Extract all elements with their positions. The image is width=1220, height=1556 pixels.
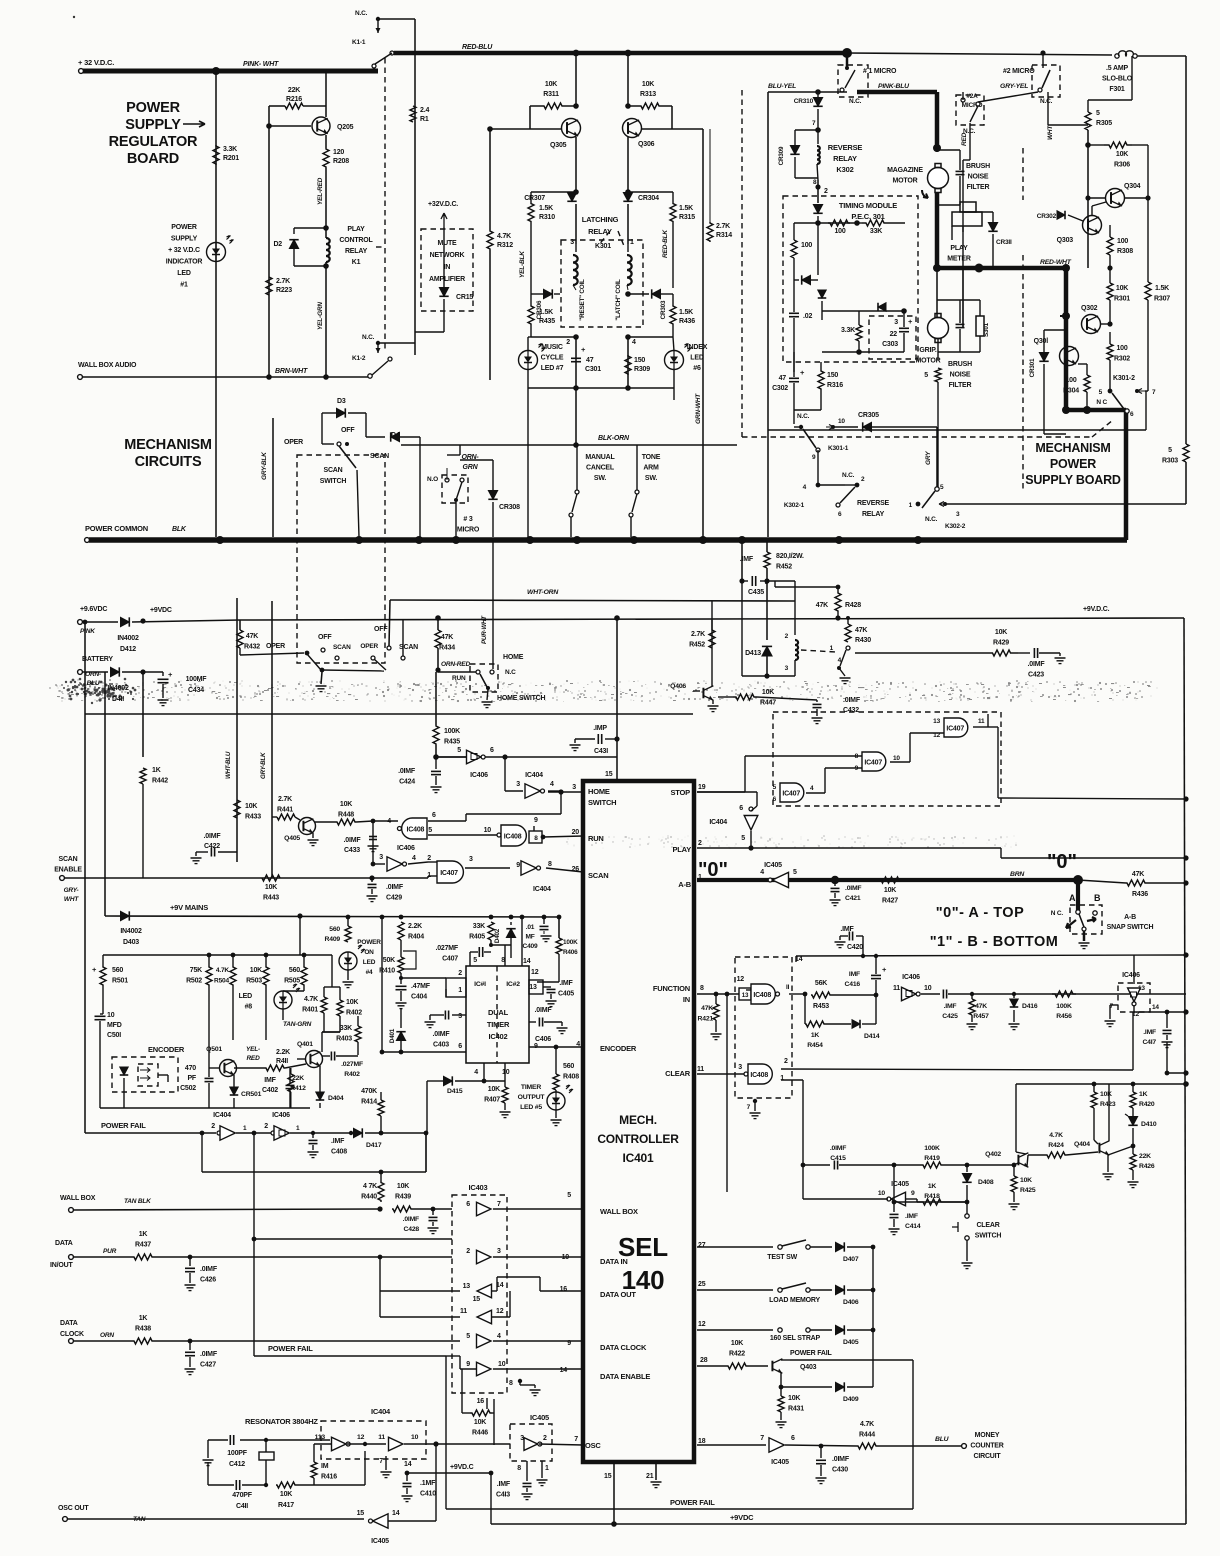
svg-text:R201: R201 <box>223 155 239 162</box>
resistor R435 1.5K <box>530 294 532 305</box>
wire clear vertical 728 <box>726 994 728 1192</box>
svg-text:1K: 1K <box>139 1315 148 1322</box>
wire diode bus vertical <box>872 1247 874 1387</box>
svg-text:5: 5 <box>765 579 769 586</box>
svg-text:C43I: C43I <box>594 748 608 755</box>
resistor R304 100 <box>1078 363 1087 365</box>
svg-text:WHT: WHT <box>1047 125 1054 140</box>
svg-text:4: 4 <box>838 657 842 664</box>
capacitor C425 .1MF <box>942 990 944 999</box>
ic402 pin stubs <box>469 959 471 966</box>
svg-text:SW.: SW. <box>594 475 606 482</box>
wire +9vdc bottom <box>491 1523 1186 1525</box>
svg-text:C4I3: C4I3 <box>496 1492 510 1499</box>
svg-text:5: 5 <box>457 747 461 754</box>
svg-text:6: 6 <box>838 511 842 518</box>
svg-text:C435: C435 <box>748 589 764 596</box>
svg-text:R311: R311 <box>543 91 559 98</box>
svg-text:10K: 10K <box>731 1340 743 1347</box>
svg-text:C434: C434 <box>188 687 204 694</box>
diode CR304 <box>623 193 632 202</box>
svg-text:IC407: IC407 <box>946 725 964 732</box>
svg-text:4.7K: 4.7K <box>304 996 318 1003</box>
svg-text:1: 1 <box>458 987 462 994</box>
svg-text:3: 3 <box>572 784 576 791</box>
resistor R311 10K <box>529 106 531 117</box>
svg-text:"0": "0" <box>1047 851 1077 873</box>
power common bus BLK <box>85 538 90 543</box>
svg-text:R420: R420 <box>1139 1101 1155 1108</box>
svg-text:PINK-BLU: PINK-BLU <box>878 83 910 90</box>
svg-text:ENCODER: ENCODER <box>600 1044 637 1053</box>
resistor R452b 2.7K <box>711 601 713 630</box>
svg-text:IN/OUT: IN/OUT <box>50 1262 73 1269</box>
svg-text:CR303: CR303 <box>660 300 667 319</box>
svg-text:13: 13 <box>742 992 749 999</box>
svg-text:REVERSE: REVERSE <box>828 143 863 152</box>
IC402 box <box>466 966 529 1063</box>
svg-text:S301: S301 <box>983 322 990 337</box>
resistor R428 47K <box>775 586 838 588</box>
svg-text:3: 3 <box>570 239 574 246</box>
svg-text:10K: 10K <box>488 1086 500 1093</box>
wire power fail bottom <box>446 1508 913 1510</box>
wire pf vertical 254 <box>253 1133 255 1356</box>
svg-text:.47MF: .47MF <box>411 983 431 990</box>
svg-text:4: 4 <box>474 1069 478 1076</box>
svg-text:MUSIC: MUSIC <box>541 344 563 351</box>
svg-text:CIRCUITS: CIRCUITS <box>135 454 202 470</box>
svg-text:3.3K: 3.3K <box>841 327 855 334</box>
capacitor C432 .01MF <box>816 700 818 702</box>
svg-text:SCAN: SCAN <box>323 467 342 474</box>
resistor R440 47K <box>378 1181 384 1202</box>
svg-text:560: 560 <box>329 926 340 933</box>
svg-text:47K: 47K <box>816 602 828 609</box>
capacitor .027MF R402 <box>330 1052 332 1061</box>
svg-text:N.C.: N.C. <box>849 98 862 105</box>
wire osc line to pin7 <box>436 1443 510 1445</box>
thick A-B bus <box>697 878 1078 882</box>
svg-text:1: 1 <box>630 239 634 246</box>
svg-text:10K: 10K <box>642 81 654 88</box>
svg-text:R313: R313 <box>640 91 656 98</box>
svg-text:MECH.: MECH. <box>619 1113 657 1127</box>
svg-text:C425: C425 <box>942 1013 958 1020</box>
resistor R316 150 <box>820 362 822 370</box>
svg-text:WHT-ORN: WHT-ORN <box>527 589 559 596</box>
svg-text:6: 6 <box>739 805 743 812</box>
resistor R448 10K <box>315 821 336 823</box>
resistor R410 50K <box>398 957 404 973</box>
resistor R433 10K <box>234 800 240 818</box>
resistor R430 47K <box>847 618 849 624</box>
svg-text:MFD: MFD <box>107 1022 122 1029</box>
svg-text:REGULATOR: REGULATOR <box>109 134 198 150</box>
svg-text:15: 15 <box>604 1473 612 1480</box>
svg-text:D405: D405 <box>843 1339 859 1346</box>
svg-text:14: 14 <box>1152 1004 1159 1011</box>
svg-text:.IMF: .IMF <box>1143 1029 1156 1036</box>
svg-text:R504: R504 <box>214 978 229 985</box>
capacitor C430 .01MF <box>820 1446 822 1458</box>
diode D413 <box>762 646 772 656</box>
capacitor C410 .1MF <box>406 1473 408 1481</box>
svg-text:C302: C302 <box>772 385 788 392</box>
svg-text:.0IMF: .0IMF <box>403 1216 419 1223</box>
timing module dashed box <box>783 196 918 362</box>
svg-text:FILTER: FILTER <box>949 382 972 389</box>
svg-text:Q306: Q306 <box>638 141 655 148</box>
svg-text:CANCEL: CANCEL <box>586 465 615 472</box>
wire +32V vertical to power common <box>215 73 217 537</box>
svg-text:100: 100 <box>1065 377 1076 384</box>
svg-text:C432: C432 <box>843 707 859 714</box>
svg-text:BLU-YEL: BLU-YEL <box>768 83 796 90</box>
svg-text:IC405: IC405 <box>530 1413 549 1422</box>
svg-text:CLOCK: CLOCK <box>60 1331 84 1338</box>
svg-text:ENABLE: ENABLE <box>54 867 82 874</box>
svg-text:2.4: 2.4 <box>420 107 429 114</box>
svg-text:100: 100 <box>1117 238 1128 245</box>
svg-text:47K: 47K <box>1132 871 1144 878</box>
svg-text:OPER: OPER <box>360 643 378 650</box>
resistor R301 10K <box>1107 265 1112 270</box>
wire q401 mains links <box>324 986 340 988</box>
svg-text:6: 6 <box>773 796 777 803</box>
resistor 3.3K pec <box>856 325 862 341</box>
svg-text:R442: R442 <box>152 778 168 785</box>
svg-text:7: 7 <box>760 1435 764 1442</box>
dashed relay K1 linkage <box>384 58 386 352</box>
wire battery verticals <box>104 672 106 916</box>
svg-text:FILTER: FILTER <box>967 184 990 191</box>
svg-text:CONTROL: CONTROL <box>339 237 373 244</box>
svg-text:14: 14 <box>795 956 803 963</box>
transistor Q306 <box>627 53 629 106</box>
diode D405 <box>810 1329 832 1331</box>
svg-text:D415: D415 <box>447 1088 463 1095</box>
svg-text:HOME SWITCH: HOME SWITCH <box>497 695 545 702</box>
svg-text:POWER FAIL: POWER FAIL <box>268 1344 313 1353</box>
svg-text:1K: 1K <box>928 1183 937 1190</box>
svg-text:R416: R416 <box>321 1474 337 1481</box>
svg-text:33K: 33K <box>473 923 485 930</box>
svg-text:4.7K: 4.7K <box>1049 1132 1063 1139</box>
svg-text:IC404: IC404 <box>709 819 727 826</box>
svg-text:K1-2: K1-2 <box>352 355 366 362</box>
svg-text:"0"- A - TOP: "0"- A - TOP <box>936 905 1025 921</box>
resistor R409 560 <box>347 917 349 926</box>
resistor R435 100K <box>435 672 437 725</box>
svg-text:C416: C416 <box>845 981 861 988</box>
svg-text:D4II: D4II <box>112 696 124 703</box>
svg-text:10K: 10K <box>340 801 352 808</box>
svg-text:22: 22 <box>890 331 898 338</box>
wire thin loop right <box>768 429 1146 431</box>
svg-text:N.C.: N.C. <box>797 413 810 420</box>
wire ic402 bottom pins <box>483 1063 485 1081</box>
svg-text:.0IMF: .0IMF <box>1028 661 1046 668</box>
svg-text:LED #5: LED #5 <box>520 1104 542 1111</box>
svg-text:10K: 10K <box>474 1419 486 1426</box>
svg-text:+32V.D.C.: +32V.D.C. <box>428 201 458 208</box>
svg-text:C409: C409 <box>523 943 538 950</box>
svg-text:15: 15 <box>605 771 613 778</box>
wire data out branches <box>379 1257 381 1291</box>
svg-text:BLK: BLK <box>172 526 187 533</box>
svg-text:C427: C427 <box>200 1362 216 1369</box>
resistor R422 10K <box>726 1363 748 1369</box>
capacitor C303 22 <box>899 327 909 329</box>
svg-text:100K: 100K <box>924 1145 940 1152</box>
svg-text:CR310: CR310 <box>794 98 814 105</box>
svg-text:470: 470 <box>185 1065 196 1072</box>
svg-text:OPER: OPER <box>266 643 285 650</box>
wire fuse to R305 <box>1111 56 1113 100</box>
svg-text:R448: R448 <box>338 812 354 819</box>
svg-text:"LATCH" COIL: "LATCH" COIL <box>615 279 622 321</box>
svg-text:GRY-BLK: GRY-BLK <box>260 752 267 779</box>
svg-text:R436: R436 <box>1132 891 1148 898</box>
svg-text:Q401: Q401 <box>297 1041 313 1048</box>
svg-text:IC405: IC405 <box>764 862 782 869</box>
svg-text:LED: LED <box>239 993 253 1000</box>
svg-text:R505: R505 <box>284 978 300 985</box>
svg-text:BLU: BLU <box>87 680 100 687</box>
svg-text:R223: R223 <box>276 287 292 294</box>
svg-text:.0IMF: .0IMF <box>845 885 861 892</box>
svg-text:CONTROLLER: CONTROLLER <box>597 1132 679 1146</box>
gate IC407d <box>437 861 463 883</box>
svg-text:LATCHING: LATCHING <box>582 215 619 224</box>
svg-text:1K: 1K <box>1139 1091 1148 1098</box>
svg-text:560: 560 <box>112 967 123 974</box>
svg-text:2: 2 <box>543 1435 547 1442</box>
svg-text:C403: C403 <box>433 1042 449 1049</box>
svg-text:1: 1 <box>780 1075 784 1082</box>
svg-text:YEL-RED: YEL-RED <box>317 177 324 205</box>
svg-text:II: II <box>786 984 790 991</box>
svg-text:14: 14 <box>404 1461 412 1468</box>
svg-text:R432: R432 <box>244 644 260 651</box>
svg-text:25: 25 <box>698 1281 706 1288</box>
svg-text:5: 5 <box>924 372 928 379</box>
svg-text:R404: R404 <box>408 934 424 941</box>
svg-text:R443: R443 <box>263 895 279 902</box>
speck top left <box>73 16 75 18</box>
diode CR311 <box>988 223 997 232</box>
svg-text:8: 8 <box>534 835 538 842</box>
svg-text:C502: C502 <box>180 1085 196 1092</box>
svg-text:IC408: IC408 <box>750 1072 768 1079</box>
svg-text:IC406: IC406 <box>397 845 415 852</box>
svg-text:K302-2: K302-2 <box>945 523 966 530</box>
svg-text:DATA: DATA <box>60 1320 78 1327</box>
svg-text:13: 13 <box>463 1283 471 1290</box>
svg-text:R427: R427 <box>882 898 898 905</box>
svg-text:CR3II: CR3II <box>996 239 1012 246</box>
svg-text:Q402: Q402 <box>985 1151 1001 1158</box>
svg-text:TIMING MODULE: TIMING MODULE <box>839 201 897 210</box>
svg-text:D408: D408 <box>978 1179 994 1186</box>
svg-text:K1-1: K1-1 <box>352 39 366 46</box>
svg-text:GRY-YEL: GRY-YEL <box>1000 83 1028 90</box>
svg-text:100K: 100K <box>444 728 460 735</box>
svg-text:IC405: IC405 <box>371 1538 389 1545</box>
resistor R312 4.7K <box>487 230 493 250</box>
svg-text:5: 5 <box>1168 447 1172 454</box>
node 2 <box>815 184 820 189</box>
svg-text:MONEY: MONEY <box>975 1432 1000 1439</box>
svg-text:R452: R452 <box>689 642 705 649</box>
capacitor C405 .1MF <box>529 980 543 994</box>
svg-text:C4I7: C4I7 <box>1142 1039 1156 1046</box>
svg-text:20: 20 <box>572 829 580 836</box>
svg-text:100MF: 100MF <box>186 676 208 683</box>
svg-text:150: 150 <box>634 357 645 364</box>
transistor Q301 <box>1060 347 1079 366</box>
power fail loop box <box>201 1133 203 1172</box>
svg-text:47K: 47K <box>975 1003 987 1010</box>
wire RED-BLU bus <box>390 51 394 55</box>
svg-text:IC408: IC408 <box>504 833 522 840</box>
svg-text:PINK: PINK <box>80 628 96 635</box>
svg-text:5: 5 <box>567 1192 571 1199</box>
svg-text:NOISE: NOISE <box>968 174 989 181</box>
svg-text:10K: 10K <box>250 967 262 974</box>
resistor R418 1K <box>893 1165 895 1202</box>
svg-text:27: 27 <box>698 1242 706 1249</box>
svg-text:13: 13 <box>529 984 537 991</box>
svg-text:10K: 10K <box>545 81 557 88</box>
svg-text:N.C.: N.C. <box>1040 98 1053 105</box>
svg-text:470K: 470K <box>361 1088 377 1095</box>
svg-text:1K: 1K <box>811 1032 820 1039</box>
wire left long vertical <box>84 622 86 1133</box>
svg-text:.0IMF: .0IMF <box>386 884 404 891</box>
svg-text:8: 8 <box>509 1380 513 1387</box>
function in line <box>697 993 739 995</box>
svg-text:R423: R423 <box>1100 1101 1116 1108</box>
wire YEL-RED <box>325 168 327 228</box>
svg-text:CLEAR: CLEAR <box>665 1069 691 1078</box>
svg-text:MOTOR: MOTOR <box>916 358 941 365</box>
svg-text:Q30l: Q30l <box>1034 338 1049 345</box>
svg-text:10: 10 <box>924 985 932 992</box>
svg-text:560: 560 <box>289 967 300 974</box>
svg-text:11: 11 <box>697 1066 704 1073</box>
wire Q306 base to GRN-WHT <box>672 128 703 130</box>
svg-text:8: 8 <box>700 985 704 992</box>
capacitor C408 .1MF <box>311 1131 315 1135</box>
svg-text:WHT: WHT <box>64 896 79 903</box>
svg-text:IMF: IMF <box>849 971 860 978</box>
svg-text:C428: C428 <box>404 1226 420 1233</box>
svg-text:DATA CLOCK: DATA CLOCK <box>600 1343 647 1352</box>
resistor R402 10K <box>337 1000 343 1016</box>
svg-text:R424: R424 <box>1048 1142 1064 1149</box>
svg-text:R437: R437 <box>135 1242 151 1249</box>
svg-text:.01: .01 <box>526 924 535 931</box>
inverter IC405 ab <box>772 872 788 887</box>
diode D409 <box>781 1386 832 1388</box>
resistor R504 4.7K <box>231 953 236 958</box>
svg-text:3: 3 <box>469 856 473 863</box>
svg-text:GRN-WHT: GRN-WHT <box>695 393 702 424</box>
svg-text:12: 12 <box>531 969 539 976</box>
svg-text:LED: LED <box>177 270 191 277</box>
node red-blu junctions <box>573 50 580 57</box>
svg-text:C430: C430 <box>832 1467 848 1474</box>
svg-text:YEL-BLK: YEL-BLK <box>519 250 526 278</box>
svg-text:11: 11 <box>378 1434 385 1441</box>
svg-text:R431: R431 <box>788 1406 804 1413</box>
svg-text:GRIP.: GRIP. <box>919 347 936 354</box>
wire rail 917 junctions <box>380 915 385 920</box>
brush noise filter top <box>937 149 960 151</box>
svg-text:#4: #4 <box>366 969 373 976</box>
svg-text:4.7K: 4.7K <box>497 233 511 240</box>
transistor Q405 circuit <box>277 814 295 820</box>
resistor R425 10K <box>1013 1165 1015 1176</box>
svg-text:TONE: TONE <box>642 454 661 461</box>
svg-text:MECHANISM: MECHANISM <box>1035 441 1110 455</box>
capacitor C302 47 <box>793 362 795 372</box>
diode pec2 <box>878 303 886 312</box>
svg-text:SCAN: SCAN <box>399 644 418 651</box>
svg-text:56K: 56K <box>815 980 827 987</box>
IC401 mech controller box <box>583 781 694 1462</box>
svg-text:2: 2 <box>211 1123 215 1130</box>
svg-text:Q405: Q405 <box>284 835 300 842</box>
capacitor C417 .1MF <box>1166 1012 1168 1028</box>
svg-text:10: 10 <box>498 1361 506 1368</box>
svg-text:IC407: IC407 <box>782 790 800 797</box>
svg-text:IC406: IC406 <box>902 974 920 981</box>
svg-text:SW.: SW. <box>645 475 657 482</box>
wire 1202 to r418 <box>917 1201 967 1203</box>
svg-text:+9VDC: +9VDC <box>150 607 172 614</box>
diode D415 <box>427 1080 443 1082</box>
resistor R436lat 1.5K <box>672 294 674 305</box>
svg-text:R310: R310 <box>539 214 555 221</box>
svg-text:.0IMF: .0IMF <box>204 833 222 840</box>
resistor R310 1.5K <box>531 191 576 193</box>
svg-text:2: 2 <box>427 855 431 862</box>
wire 1073 line <box>1167 1072 1186 1074</box>
svg-text:.IMF: .IMF <box>331 1138 345 1145</box>
svg-text:IC404: IC404 <box>371 1407 391 1416</box>
node latch bottom <box>573 334 579 340</box>
svg-text:OFF: OFF <box>318 634 332 641</box>
svg-text:15: 15 <box>473 1296 481 1303</box>
resistor R457 47K <box>970 992 974 996</box>
svg-text:IC402: IC402 <box>488 1032 507 1041</box>
svg-text:15: 15 <box>357 1510 365 1517</box>
wire line 757 <box>436 756 617 758</box>
resistor R436 47K <box>1078 880 1126 883</box>
svg-text:.027MF: .027MF <box>435 945 458 952</box>
timing module internals <box>794 222 857 224</box>
loop R454 D414 <box>804 995 806 1024</box>
transistor Q205 <box>325 71 327 117</box>
LED #1 power supply indicator <box>207 243 226 262</box>
svg-text:ARM: ARM <box>643 465 659 472</box>
svg-text:7: 7 <box>1152 389 1156 396</box>
diode D416 <box>1012 992 1016 996</box>
svg-text:1K: 1K <box>139 1231 148 1238</box>
